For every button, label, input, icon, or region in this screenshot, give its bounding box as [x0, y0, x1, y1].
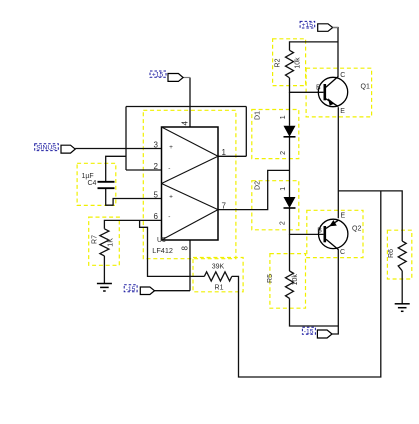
svg-text:5: 5	[154, 190, 159, 199]
wire R2 bottom to Q1 base	[290, 78, 324, 92]
selection box op-amp U5	[143, 110, 236, 258]
svg-text:+: +	[169, 193, 173, 200]
svg-text:2: 2	[280, 151, 287, 155]
selection box R7	[89, 217, 120, 265]
svg-text:3: 3	[154, 140, 159, 149]
label SINUS	[35, 144, 59, 152]
wire D1 cathode to D2 anode	[289, 137, 291, 197]
svg-text:B: B	[316, 85, 321, 92]
svg-text:-: -	[168, 213, 170, 220]
wire pin 4 supply	[189, 78, 191, 128]
selection box Q1	[306, 68, 372, 117]
transistor Q1 NPN	[318, 76, 347, 106]
svg-text:C: C	[340, 249, 345, 256]
ground below R6	[395, 304, 410, 312]
svg-text:U5: U5	[157, 237, 166, 244]
svg-text:R5: R5	[267, 274, 274, 283]
wire -15 port to pin 8	[155, 290, 191, 292]
svg-text:2: 2	[154, 162, 159, 171]
svg-text:C4: C4	[88, 180, 97, 187]
svg-text:1: 1	[280, 115, 287, 119]
resistor R7	[100, 229, 109, 256]
svg-text:Q1: Q1	[361, 84, 370, 91]
svg-text:10k: 10k	[292, 274, 299, 286]
wire D2 cathode to Q2 base	[290, 208, 324, 234]
wire R7 to ground	[103, 256, 105, 284]
svg-text:D1: D1	[255, 111, 262, 120]
transistor Q2 PNP	[319, 219, 348, 249]
svg-text:1: 1	[280, 187, 287, 191]
wire Q2 collector to -15	[332, 249, 338, 334]
wire R2 top	[290, 42, 339, 50]
svg-text:R7: R7	[92, 235, 99, 244]
wire pin 1 to feedback	[218, 155, 246, 157]
label +15 (op-amp)	[150, 71, 166, 79]
svg-text:-15: -15	[126, 286, 136, 293]
resistor R5	[286, 271, 294, 298]
svg-text:1µF: 1µF	[82, 173, 94, 180]
wire pin 6	[104, 220, 161, 228]
wire SINUS to pin 3	[75, 148, 161, 150]
wire pin 6 to R1	[140, 220, 205, 276]
selection box D1	[252, 110, 299, 159]
diode D1	[284, 126, 296, 137]
svg-text:SINUS: SINUS	[36, 145, 57, 152]
svg-text:2: 2	[280, 221, 287, 225]
label +15 (output stage)	[300, 21, 315, 29]
diode D2	[284, 197, 296, 208]
wire feedback top	[126, 106, 246, 108]
selection box R5	[270, 254, 306, 309]
wire pin 8 supply	[189, 240, 191, 291]
ground below R7	[97, 284, 112, 292]
wire R6 to ground	[401, 271, 403, 304]
selection box R2	[273, 39, 306, 86]
svg-text:B: B	[317, 227, 322, 234]
selection box D2	[252, 181, 299, 230]
svg-text:+15: +15	[302, 22, 314, 29]
svg-text:6: 6	[154, 212, 159, 221]
wire feedback vertical right	[245, 107, 247, 157]
svg-text:+15: +15	[152, 72, 164, 79]
wire +15 port stub	[183, 77, 190, 79]
svg-text:E: E	[340, 108, 345, 115]
wire Q1 emitter to Q2 emitter	[337, 107, 339, 218]
selection box R6	[387, 230, 411, 279]
svg-text:LF412: LF412	[152, 246, 173, 255]
svg-text:1: 1	[222, 148, 227, 157]
wire +15 to Q1 collector	[333, 28, 338, 77]
svg-text:8: 8	[181, 246, 190, 251]
label -15 (op-amp)	[124, 285, 137, 293]
resistor R6	[398, 241, 406, 271]
port +15 (output stage)	[318, 24, 338, 32]
port +15 (op-amp)	[168, 74, 183, 82]
svg-text:R2: R2	[275, 58, 282, 67]
svg-text:D2: D2	[255, 181, 262, 190]
svg-text:4: 4	[181, 121, 190, 126]
capacitor C4	[98, 182, 115, 188]
wire R5 bottom	[290, 298, 339, 326]
port -15 (output stage)	[317, 330, 332, 338]
wire to pin 2	[126, 169, 162, 171]
svg-text:-15: -15	[304, 328, 314, 335]
svg-text:7: 7	[222, 201, 227, 210]
resistor R1	[204, 272, 232, 281]
svg-text:1K: 1K	[108, 238, 115, 247]
wire feedback vertical left	[125, 107, 127, 171]
selection box C4	[77, 163, 116, 205]
svg-text:R1: R1	[215, 284, 224, 291]
wire R1 right	[232, 191, 381, 377]
svg-text:-: -	[168, 165, 170, 172]
wire base node to D1	[289, 92, 291, 126]
svg-text:10k: 10k	[295, 57, 302, 69]
svg-text:39K: 39K	[212, 264, 225, 271]
wire node to R5	[289, 234, 291, 271]
resistor R2	[286, 50, 294, 78]
selection box Q2	[307, 210, 363, 257]
wire pin 7 output	[218, 170, 290, 209]
selection box R1	[193, 258, 243, 292]
port SINUS	[61, 145, 75, 153]
wire C4 bottom to pin 5	[106, 188, 162, 205]
op-amp U5 LF412 body	[162, 127, 219, 240]
svg-text:E: E	[341, 213, 346, 220]
svg-text:+: +	[169, 144, 173, 151]
svg-text:C: C	[340, 72, 345, 79]
wire output node	[338, 191, 402, 241]
svg-text:R6: R6	[388, 249, 395, 258]
svg-text:Q2: Q2	[352, 226, 361, 233]
wire C4 branch	[106, 156, 126, 182]
port -15 (op-amp)	[140, 287, 154, 295]
label -15 (output stage)	[302, 327, 315, 335]
